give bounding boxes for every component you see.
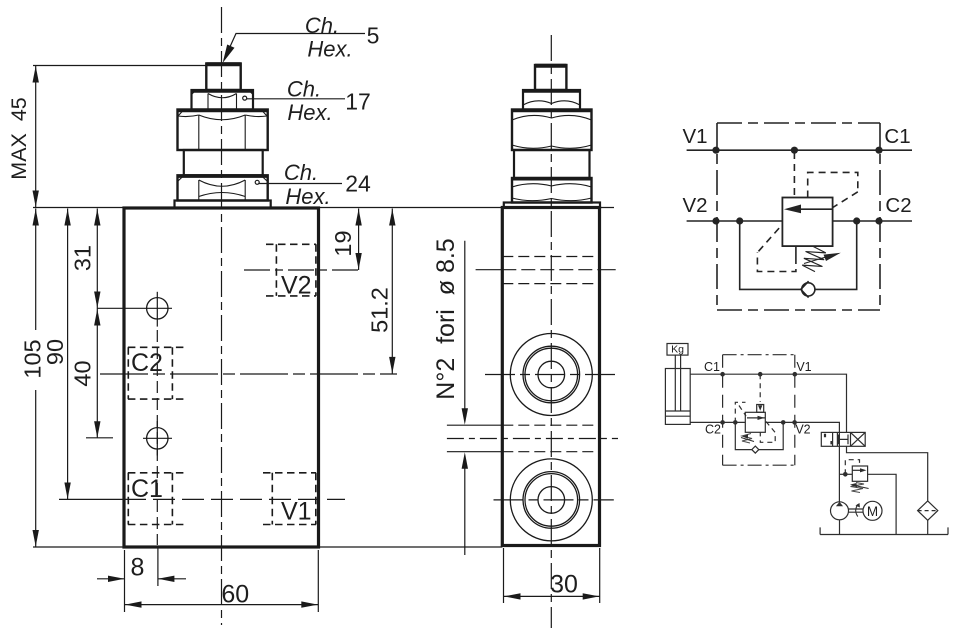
svg-text:51.2: 51.2 xyxy=(367,287,393,333)
svg-text:V2: V2 xyxy=(795,423,810,437)
svg-text:C1: C1 xyxy=(704,360,720,374)
svg-text:8: 8 xyxy=(131,553,145,581)
svg-text:MAX 45: MAX 45 xyxy=(7,97,31,179)
svg-text:17: 17 xyxy=(345,89,371,115)
svg-text:5: 5 xyxy=(367,23,380,49)
svg-text:Ch.: Ch. xyxy=(305,13,339,38)
svg-text:M: M xyxy=(867,504,878,519)
svg-text:C2: C2 xyxy=(131,349,163,377)
svg-text:C1: C1 xyxy=(884,125,910,148)
svg-text:V2: V2 xyxy=(682,194,707,217)
svg-text:V2: V2 xyxy=(281,272,312,300)
svg-text:40: 40 xyxy=(70,360,96,386)
svg-text:Kg: Kg xyxy=(671,344,684,356)
svg-text:24: 24 xyxy=(345,171,371,197)
svg-text:30: 30 xyxy=(550,571,578,599)
svg-text:90: 90 xyxy=(42,339,68,365)
svg-text:N°2 fori ø 8.5: N°2 fori ø 8.5 xyxy=(432,238,460,399)
svg-text:19: 19 xyxy=(330,230,356,256)
svg-text:C2: C2 xyxy=(885,194,911,217)
svg-text:C1: C1 xyxy=(131,475,163,503)
svg-text:V1: V1 xyxy=(281,498,312,526)
svg-text:Hex.: Hex. xyxy=(307,37,352,62)
svg-text:V1: V1 xyxy=(682,125,707,148)
svg-text:Ch.: Ch. xyxy=(284,160,318,185)
svg-text:Ch.: Ch. xyxy=(287,76,321,101)
svg-text:60: 60 xyxy=(221,580,249,608)
svg-text:31: 31 xyxy=(70,245,96,271)
svg-text:C2: C2 xyxy=(705,423,721,437)
svg-text:Hex.: Hex. xyxy=(287,100,332,125)
svg-text:V1: V1 xyxy=(796,360,811,374)
svg-text:Hex.: Hex. xyxy=(285,184,330,209)
